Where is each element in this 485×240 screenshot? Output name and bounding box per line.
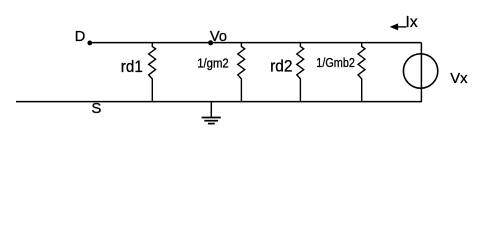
- svg-text:rd1: rd1: [121, 57, 143, 76]
- node D: [87, 41, 92, 46]
- svg-text:Vo: Vo: [210, 29, 227, 45]
- svg-text:S: S: [91, 100, 101, 117]
- wire: top rail D to corner: [90, 42, 422, 44]
- resistor rd1: [149, 43, 156, 102]
- resistor 1/gm2: [238, 43, 245, 102]
- resistor rd2: [297, 43, 304, 102]
- resistor 1/Gmb2: [358, 43, 365, 102]
- node Vo: [208, 40, 213, 45]
- source Vx (circle): [403, 54, 437, 88]
- wire: bottom rail S: [16, 101, 422, 103]
- svg-text:1/gm2: 1/gm2: [197, 56, 229, 70]
- svg-text:D: D: [75, 29, 86, 45]
- ground: [202, 102, 221, 124]
- svg-text:rd2: rd2: [270, 56, 292, 75]
- svg-text:Ix: Ix: [406, 14, 418, 31]
- wire: right vertical through source: [420, 43, 422, 102]
- svg-text:Vx: Vx: [450, 71, 468, 87]
- svg-text:1/Gmb2: 1/Gmb2: [316, 56, 355, 70]
- current arrow Ix: [390, 23, 407, 30]
